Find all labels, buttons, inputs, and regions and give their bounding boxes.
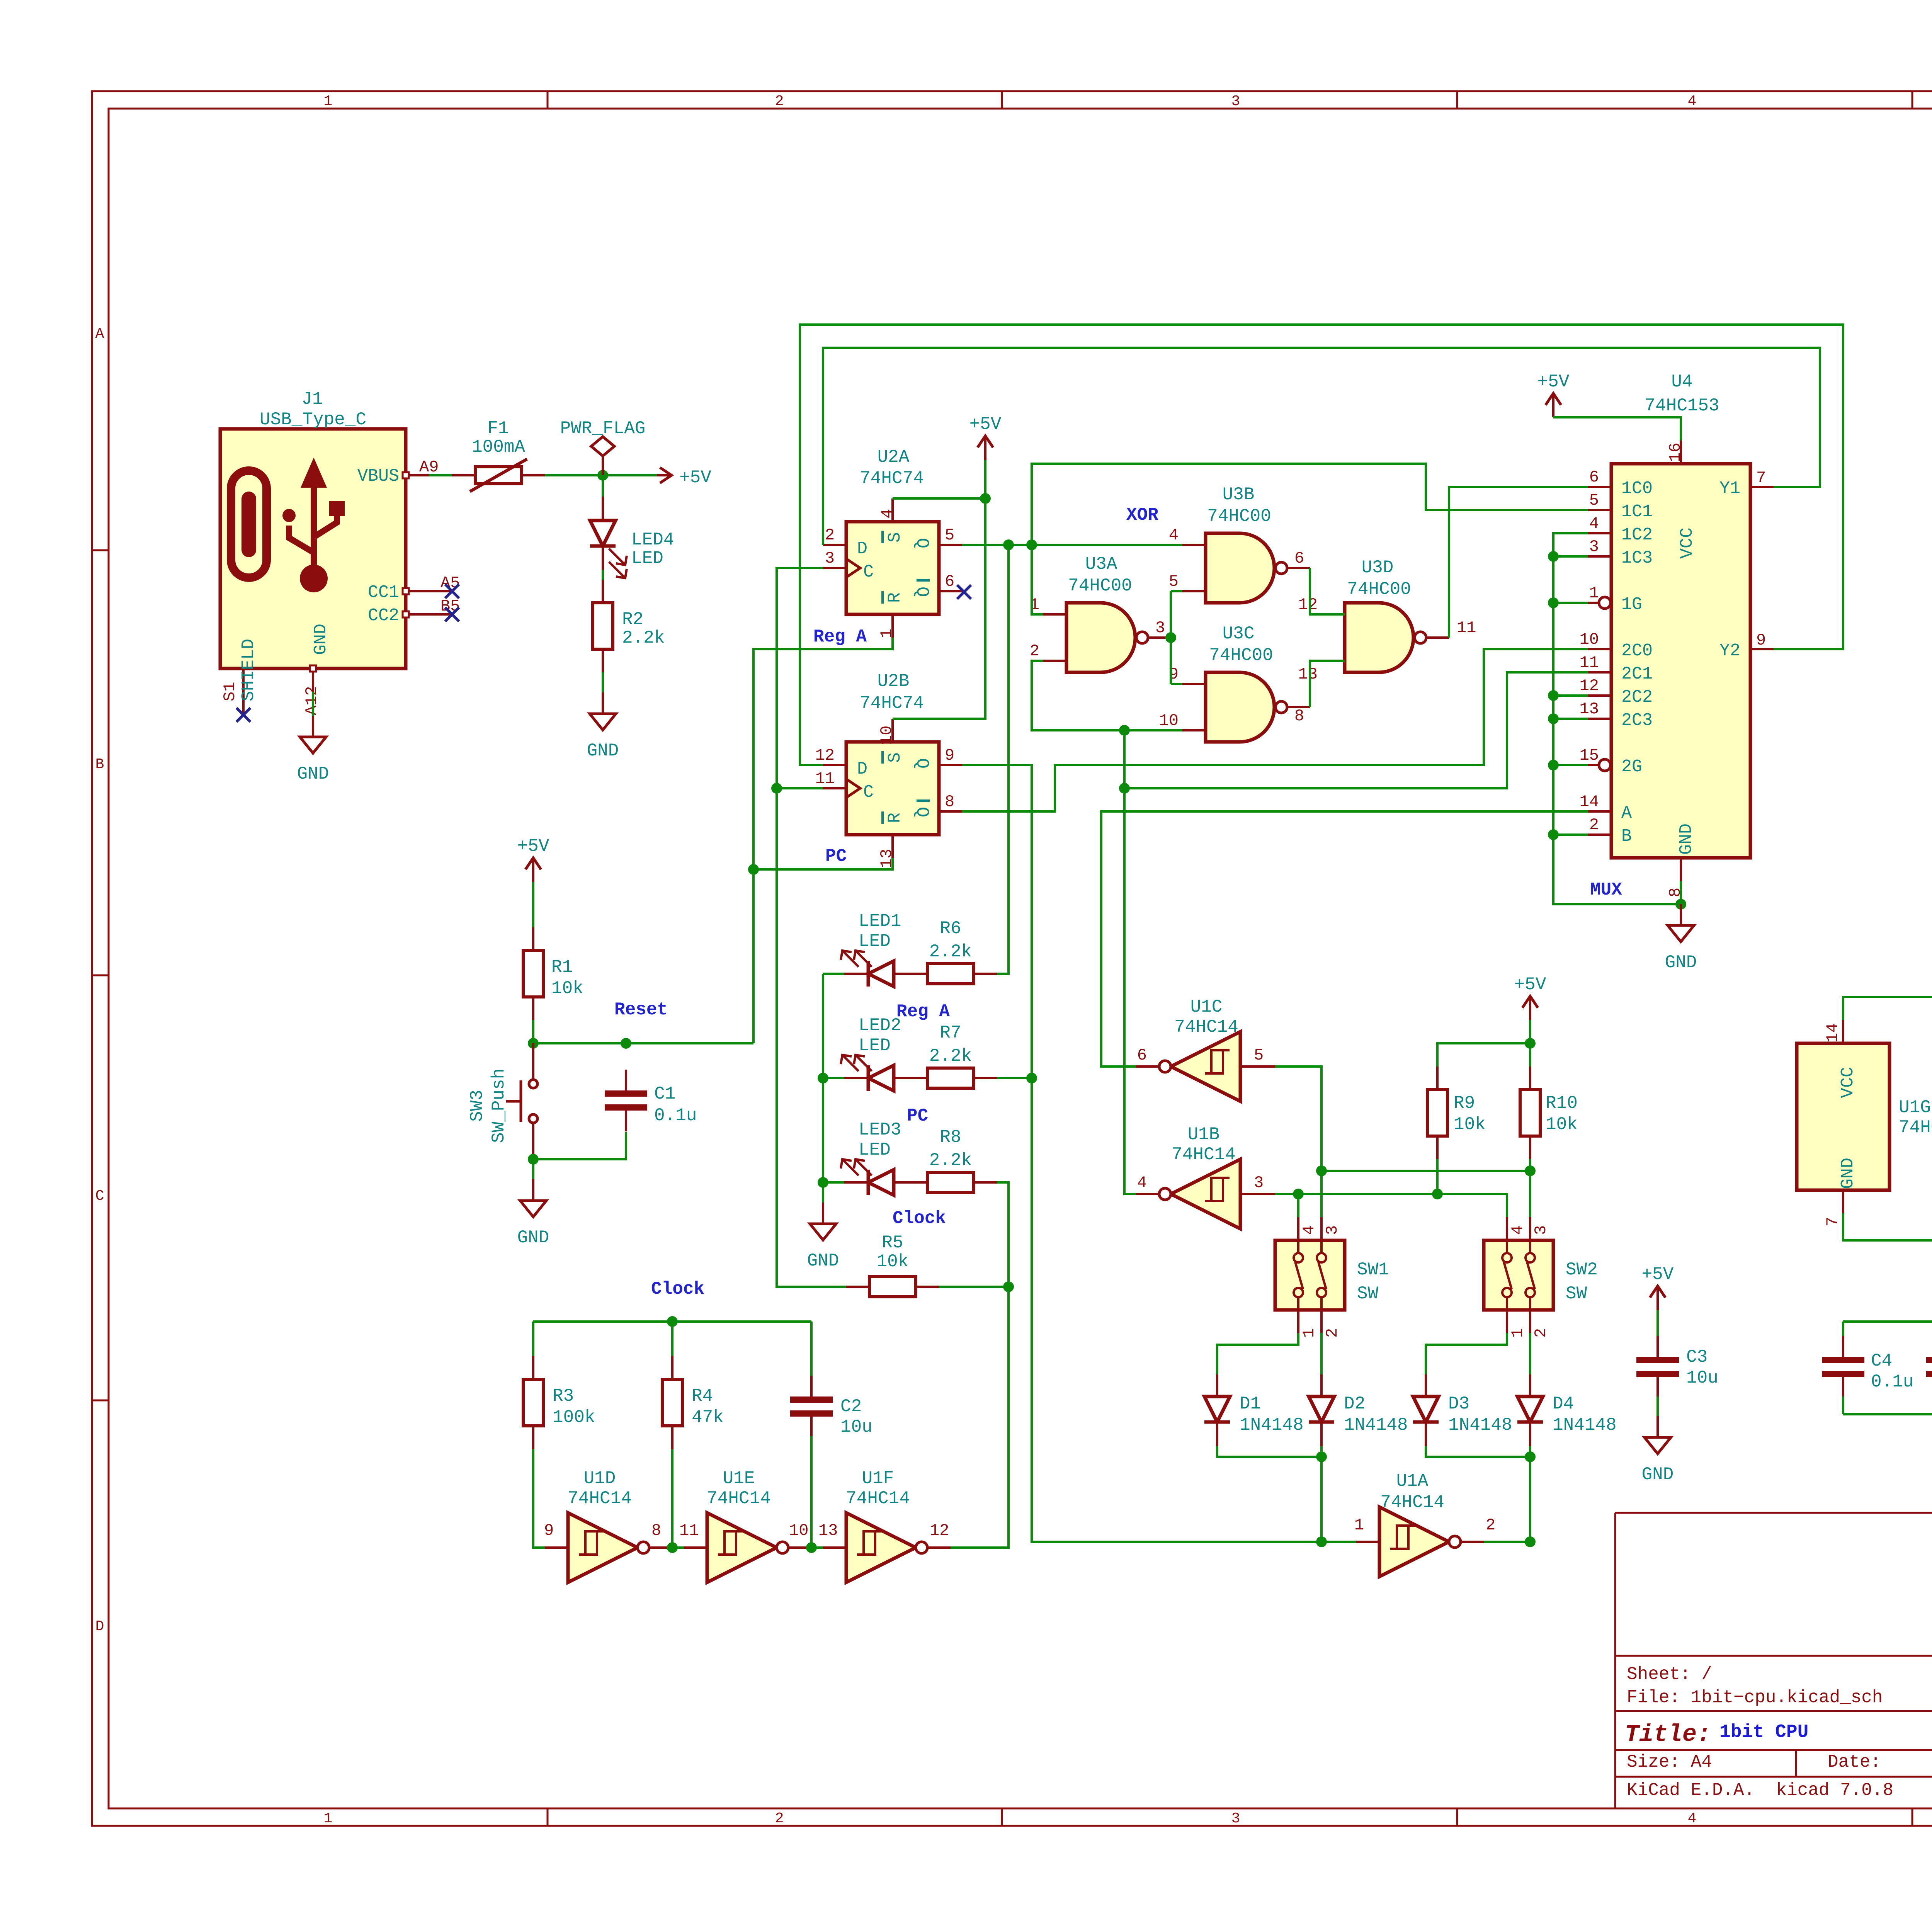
U4 pin 1 1G [1588, 602, 1599, 604]
svg-text:14: 14 [1823, 1023, 1842, 1043]
LED LED2 [841, 1055, 918, 1091]
U2B pin 11 C [823, 787, 846, 789]
J1 pin A9 VBUS [403, 472, 429, 478]
svg-text:74HC14: 74HC14 [1380, 1492, 1444, 1512]
junction +5V to U2A set [980, 493, 991, 504]
U2B pin 10 Set [891, 719, 894, 742]
LED LED4 [590, 497, 627, 578]
junction at PWR_FLAG node [597, 470, 608, 481]
svg-text:4: 4 [878, 509, 897, 519]
junction Reset to U2B [748, 864, 759, 875]
svg-text:3: 3 [825, 549, 835, 568]
wire [997, 545, 1009, 974]
junction R9 bottom [1432, 1189, 1443, 1199]
wire [753, 638, 893, 1043]
+5V power symbol above R1 [517, 836, 549, 882]
U2A pin 4 Set [891, 498, 894, 522]
junction Clock at U2B C [771, 783, 782, 794]
resistor R8 [904, 1127, 997, 1192]
svg-text:4: 4 [1169, 526, 1179, 544]
svg-text:1: 1 [324, 93, 333, 110]
svg-text:C1: C1 [654, 1084, 675, 1104]
+5V power symbol above U2A [969, 414, 1002, 460]
ground symbol below R2 [587, 692, 619, 761]
svg-text:C4: C4 [1871, 1351, 1892, 1371]
wire [1217, 1446, 1321, 1457]
J1 pin S1 SHIELD [242, 668, 245, 715]
wire [671, 1449, 673, 1548]
wire [810, 1436, 813, 1548]
U4 pin 8 GND [1680, 858, 1682, 881]
wire [1529, 1020, 1531, 1067]
svg-text:PC: PC [907, 1106, 928, 1126]
svg-text:GND: GND [311, 624, 331, 655]
svg-text:14: 14 [1580, 793, 1599, 811]
capacitor C1 [605, 1070, 697, 1131]
junction R10 bottom [1525, 1165, 1536, 1176]
svg-text:R4: R4 [692, 1386, 713, 1406]
wire [1553, 533, 1681, 904]
svg-text:6: 6 [1294, 549, 1304, 568]
U4 pin 7 Y1 [1750, 486, 1774, 488]
wire [800, 325, 1843, 765]
svg-text:LED: LED [859, 931, 891, 951]
svg-text:Clock: Clock [893, 1208, 946, 1228]
svg-text:+5V: +5V [1642, 1264, 1674, 1284]
U2B pin 12 D [823, 764, 846, 766]
svg-text:10: 10 [789, 1521, 808, 1540]
wire [1171, 590, 1182, 592]
svg-text:U1A: U1A [1396, 1471, 1429, 1491]
svg-text:5: 5 [1169, 572, 1179, 591]
svg-text:2.2k: 2.2k [929, 1046, 972, 1066]
wire [962, 544, 1182, 546]
svg-text:74HC14: 74HC14 [1174, 1017, 1238, 1037]
svg-text:5: 5 [945, 526, 954, 544]
U4 pin 4 1C2 [1588, 532, 1611, 534]
svg-text:U4: U4 [1671, 372, 1692, 392]
svg-text:C: C [863, 562, 874, 582]
inverter U1E 74HC14 [684, 1513, 811, 1582]
svg-text:GND: GND [807, 1251, 839, 1271]
svg-text:2.2k: 2.2k [929, 942, 972, 962]
svg-text:Clock: Clock [651, 1279, 704, 1299]
wire [962, 765, 1356, 1542]
svg-text:B: B [1621, 827, 1632, 846]
svg-text:GND: GND [297, 764, 329, 784]
junction Q to Reg A LED [1003, 539, 1014, 550]
svg-text:10: 10 [1580, 630, 1599, 649]
svg-text:10u: 10u [840, 1417, 872, 1437]
svg-text:U1G: U1G [1899, 1097, 1931, 1118]
wire [1553, 764, 1588, 766]
wire [777, 787, 823, 789]
svg-text:C: C [95, 1188, 104, 1204]
junction PC net at LED2 [1026, 1073, 1037, 1084]
border column ticks bottom [547, 1808, 549, 1826]
U2A pin 5 Q [939, 544, 962, 546]
svg-text:A: A [95, 326, 104, 342]
U2A pin 6 Qbar [939, 590, 962, 592]
junction R9 top rail [1525, 1038, 1536, 1049]
wire [1656, 1310, 1659, 1338]
wire [1297, 1194, 1299, 1217]
no-connect CC1 [445, 584, 459, 598]
wire [1553, 555, 1588, 558]
svg-text:C: C [863, 782, 874, 802]
wire [823, 348, 1820, 545]
wire [545, 474, 657, 476]
inverter U1B 74HC14 [1136, 1159, 1275, 1229]
switch SW2 SW [1484, 1217, 1553, 1333]
svg-text:R3: R3 [553, 1386, 574, 1406]
svg-text:SW: SW [1566, 1284, 1587, 1304]
wire [532, 1159, 534, 1179]
wire [1436, 1159, 1439, 1194]
svg-text:1: 1 [878, 629, 896, 638]
svg-text:2: 2 [1323, 1328, 1342, 1338]
J1 pin A12 GND [310, 665, 316, 692]
resistor R2 [593, 580, 665, 672]
svg-text:10k: 10k [877, 1252, 909, 1272]
svg-text:74HC14: 74HC14 [1899, 1118, 1932, 1138]
svg-text:File: 1bit−cpu.kicad_sch: File: 1bit−cpu.kicad_sch [1627, 1687, 1883, 1708]
wire [671, 1322, 673, 1356]
svg-text:GND: GND [1677, 823, 1696, 855]
svg-text:47k: 47k [692, 1407, 724, 1427]
svg-text:74HC14: 74HC14 [1172, 1145, 1236, 1165]
svg-text:10k: 10k [1454, 1114, 1486, 1135]
svg-text:R9: R9 [1454, 1093, 1475, 1113]
svg-text:4: 4 [1509, 1225, 1527, 1235]
switch SW1 SW [1275, 1217, 1345, 1333]
svg-text:+5V: +5V [1537, 372, 1570, 392]
inverter U1D 74HC14 [545, 1513, 672, 1582]
svg-text:11: 11 [1457, 619, 1476, 637]
svg-text:+5V: +5V [1514, 975, 1546, 995]
svg-text:9: 9 [1756, 631, 1766, 650]
J1 USB logo oval [231, 471, 267, 578]
junction R1/SW3/Reset [528, 1038, 539, 1049]
svg-text:1N4148: 1N4148 [1448, 1415, 1512, 1435]
svg-text:11: 11 [815, 769, 835, 788]
wire [1656, 1397, 1659, 1416]
U2B pin 8 Qbar [939, 810, 962, 813]
junction U1D out [667, 1542, 678, 1553]
U4 pin 2 B [1588, 833, 1611, 836]
svg-text:D4: D4 [1553, 1394, 1574, 1414]
resistor R7 [904, 1023, 997, 1088]
wire [533, 1132, 626, 1159]
svg-text:D: D [95, 1618, 104, 1635]
svg-text:F1: F1 [487, 418, 509, 439]
svg-text:2C2: 2C2 [1621, 687, 1653, 707]
ground symbol below LED3 [807, 1203, 839, 1271]
wire [1680, 881, 1682, 904]
svg-text:U2A: U2A [878, 447, 910, 467]
svg-text:3: 3 [1589, 538, 1599, 556]
svg-text:GND: GND [587, 741, 619, 761]
junction R4 top [667, 1316, 678, 1327]
svg-text:PWR_FLAG: PWR_FLAG [560, 418, 646, 439]
svg-text:U1B: U1B [1188, 1124, 1220, 1145]
svg-text:Y2: Y2 [1719, 641, 1740, 661]
svg-text:13: 13 [1298, 665, 1318, 684]
svg-text:16: 16 [1666, 443, 1685, 462]
svg-text:R: R [885, 592, 905, 603]
svg-text:Q: Q [912, 807, 932, 817]
wire [1032, 464, 1588, 545]
resistor R4 [662, 1356, 724, 1449]
svg-text:R: R [885, 813, 905, 823]
svg-text:13: 13 [818, 1521, 838, 1540]
svg-text:D1: D1 [1240, 1394, 1261, 1414]
svg-text:SW_Push: SW_Push [489, 1068, 509, 1143]
U4 pin 14 A [1588, 810, 1611, 813]
J1 pin A5 CC1 [403, 588, 452, 594]
wire [1275, 1194, 1507, 1217]
resistor R5 [846, 1233, 939, 1297]
svg-text:2: 2 [1486, 1516, 1495, 1534]
svg-text:2C3: 2C3 [1621, 711, 1653, 730]
svg-text:XOR: XOR [1126, 505, 1158, 525]
svg-text:1bit CPU: 1bit CPU [1719, 1722, 1808, 1743]
svg-text:4: 4 [1589, 514, 1599, 533]
wire [1553, 718, 1588, 720]
wire [1449, 487, 1588, 638]
svg-text:2G: 2G [1621, 757, 1642, 777]
diode D3 1N4148 [1413, 1374, 1439, 1446]
svg-text:4: 4 [1137, 1174, 1147, 1192]
svg-text:1G: 1G [1621, 595, 1642, 614]
svg-text:9: 9 [544, 1521, 554, 1540]
wire [429, 474, 456, 476]
resistor R6 [904, 919, 997, 984]
wire [1843, 1320, 1932, 1323]
svg-text:2: 2 [775, 93, 784, 110]
svg-text:6: 6 [1589, 468, 1599, 486]
U4 pin 5 1C1 [1588, 509, 1611, 511]
wire [962, 649, 1588, 811]
junction U3A out [1165, 632, 1176, 643]
junction D1/D2 [1316, 1451, 1327, 1462]
svg-text:Q: Q [912, 587, 932, 597]
svg-text:SW1: SW1 [1357, 1260, 1389, 1280]
svg-text:10: 10 [878, 726, 896, 745]
U4 pin 13 2C3 [1588, 718, 1611, 720]
svg-text:7: 7 [1823, 1217, 1842, 1226]
svg-text:100k: 100k [553, 1407, 595, 1427]
svg-text:D2: D2 [1344, 1394, 1365, 1414]
J1 pin B5 CC2 [403, 611, 452, 617]
U4 pin 12 2C2 [1588, 694, 1611, 697]
svg-text:LED: LED [631, 548, 663, 568]
svg-text:S1: S1 [221, 682, 239, 701]
no-connect SHIELD [236, 708, 250, 722]
U4 pin 6 1C0 [1588, 486, 1611, 488]
svg-text:10k: 10k [551, 978, 583, 998]
junction LED3 cathode [818, 1177, 828, 1188]
wire [1842, 1397, 1844, 1414]
svg-text:74HC00: 74HC00 [1207, 506, 1271, 526]
svg-text:R2: R2 [622, 609, 643, 629]
svg-text:R7: R7 [940, 1023, 961, 1043]
junction at U1A output [1525, 1536, 1536, 1547]
svg-text:USB_Type_C: USB_Type_C [260, 410, 366, 430]
svg-text:A: A [1621, 803, 1632, 823]
wire [533, 1042, 753, 1044]
wire [532, 1020, 534, 1043]
multiplexer U4 74HC153 body [1611, 464, 1750, 858]
+5V power symbol above C3 [1642, 1264, 1674, 1310]
U1G pin 14 VCC [1842, 1020, 1844, 1043]
wire [1553, 417, 1681, 441]
svg-text:Date:: Date: [1828, 1752, 1881, 1772]
wire [1842, 1322, 1844, 1338]
fuse F1 [452, 459, 545, 492]
svg-text:12: 12 [930, 1521, 949, 1540]
wire [1032, 545, 1043, 614]
wire [602, 672, 604, 692]
border column ticks top [547, 91, 549, 109]
svg-text:U1D: U1D [584, 1468, 616, 1488]
U4 pin 3 1C3 [1588, 555, 1611, 558]
svg-text:R5: R5 [882, 1233, 903, 1253]
svg-text:12: 12 [1580, 677, 1599, 695]
svg-text:11: 11 [679, 1521, 699, 1540]
svg-text:C3: C3 [1686, 1347, 1708, 1367]
ground symbol below C3 [1642, 1416, 1674, 1485]
wire [1553, 833, 1588, 836]
svg-text:4: 4 [1688, 93, 1697, 110]
U4 pin 16 VCC [1680, 441, 1682, 464]
svg-text:KiCad E.D.A. kicad 7.0.8: KiCad E.D.A. kicad 7.0.8 [1627, 1780, 1893, 1800]
wire [1032, 661, 1182, 730]
svg-text:3: 3 [1532, 1225, 1550, 1235]
resistor R3 [523, 1356, 595, 1449]
svg-text:Reset: Reset [614, 1000, 668, 1020]
+5V power symbol at U4 VCC [1537, 372, 1570, 417]
svg-text:R8: R8 [940, 1127, 961, 1147]
svg-text:1C3: 1C3 [1621, 548, 1653, 568]
svg-text:CC1: CC1 [368, 583, 399, 602]
wire [1529, 1159, 1531, 1171]
svg-text:2: 2 [825, 526, 835, 544]
wire [1426, 1333, 1507, 1374]
svg-text:13: 13 [1580, 700, 1599, 718]
U4 pin 10 2C0 [1588, 648, 1611, 650]
svg-text:2.2k: 2.2k [929, 1150, 972, 1170]
svg-text:10k: 10k [1546, 1114, 1578, 1135]
svg-text:13: 13 [878, 849, 896, 868]
svg-text:5: 5 [1254, 1046, 1264, 1065]
junction U1C input row [1316, 1165, 1327, 1176]
svg-text:12: 12 [815, 746, 835, 765]
svg-text:8: 8 [651, 1521, 661, 1540]
svg-text:MUX: MUX [1590, 880, 1622, 900]
svg-text:PC: PC [825, 846, 847, 866]
svg-text:74HC14: 74HC14 [707, 1488, 771, 1509]
svg-text:Sheet: /: Sheet: / [1627, 1664, 1712, 1684]
svg-text:LED4: LED4 [631, 530, 674, 550]
wire [1426, 1446, 1530, 1457]
wire [1529, 1446, 1531, 1542]
power unit U1G 74HC14 [1797, 1043, 1889, 1190]
svg-text:GND: GND [1838, 1158, 1858, 1189]
svg-text:Size: A4: Size: A4 [1627, 1752, 1712, 1772]
U1G pin 7 GND [1842, 1190, 1844, 1213]
junction GND tie y=1560 [1548, 597, 1559, 608]
svg-text:U3C: U3C [1223, 624, 1255, 644]
svg-text:LED2: LED2 [859, 1015, 901, 1036]
NAND gate U3A 74HC00 [1043, 603, 1171, 672]
junction U1E out [806, 1542, 817, 1553]
inverter U1C 74HC14 [1136, 1032, 1275, 1101]
svg-text:1N4148: 1N4148 [1344, 1415, 1408, 1435]
svg-text:VCC: VCC [1838, 1067, 1858, 1098]
svg-text:+5V: +5V [517, 836, 549, 856]
wire [1553, 694, 1588, 697]
svg-text:1: 1 [324, 1810, 333, 1827]
junction D3/D4 [1525, 1451, 1536, 1462]
svg-text:R10: R10 [1546, 1093, 1578, 1113]
svg-text:LED: LED [859, 1140, 891, 1160]
svg-text:3: 3 [1323, 1225, 1342, 1235]
border row ticks left [91, 549, 109, 551]
svg-text:1: 1 [1509, 1328, 1527, 1338]
svg-text:4: 4 [1688, 1810, 1697, 1827]
svg-text:100mA: 100mA [472, 437, 525, 457]
svg-text:15: 15 [1580, 746, 1599, 765]
wire [1171, 683, 1182, 685]
wire [602, 475, 604, 499]
U2B pin 9 Q [939, 764, 962, 766]
svg-text:Q: Q [912, 538, 932, 548]
wire [1320, 1171, 1323, 1217]
svg-text:4: 4 [1300, 1225, 1318, 1235]
svg-text:1: 1 [1300, 1328, 1318, 1338]
svg-text:S: S [885, 532, 905, 543]
junction R5 right [1003, 1281, 1014, 1292]
wire [1484, 1541, 1530, 1543]
U4 pin 11 2C1 [1588, 671, 1611, 674]
wire [1217, 1333, 1298, 1374]
junction GND tie y=1440 [1548, 551, 1559, 562]
svg-text:SW3: SW3 [467, 1090, 487, 1122]
ground symbol below J1 [297, 716, 329, 784]
junction Q to U3A pin 1 [1026, 539, 1037, 550]
junction SW1 pin 4 [1293, 1189, 1304, 1199]
no-connect CC2 [445, 607, 459, 621]
svg-text:Title:: Title: [1625, 1721, 1711, 1748]
wire [1124, 672, 1588, 788]
svg-text:CC2: CC2 [368, 606, 399, 626]
svg-text:1N4148: 1N4148 [1240, 1415, 1304, 1435]
svg-text:9: 9 [945, 746, 954, 765]
svg-text:J1: J1 [301, 389, 323, 409]
wire [753, 858, 893, 869]
svg-text:A9: A9 [419, 458, 439, 476]
svg-text:1: 1 [1354, 1516, 1364, 1534]
junction to U4 2C1 [1119, 783, 1130, 794]
svg-text:2: 2 [1030, 642, 1039, 660]
junction GND tie y=1860 [1548, 713, 1559, 724]
junction SW3/C1 bottom [528, 1154, 539, 1165]
svg-text:74HC00: 74HC00 [1209, 645, 1273, 665]
svg-text:R1: R1 [551, 957, 573, 977]
NAND gate U3D 74HC00 [1321, 603, 1449, 672]
wire [1843, 997, 1932, 1020]
